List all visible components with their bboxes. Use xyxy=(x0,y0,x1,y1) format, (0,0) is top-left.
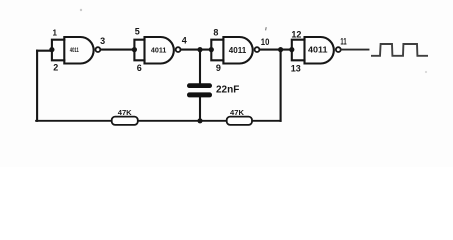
svg-text:3: 3 xyxy=(100,36,105,46)
node bottom rail junction xyxy=(197,118,202,123)
svg-text:4011: 4011 xyxy=(70,47,79,54)
bubble gate2 output xyxy=(176,47,181,52)
svg-text:1: 1 xyxy=(52,29,57,38)
speck artifact right xyxy=(425,71,427,73)
NAND gate U1c 4011 xyxy=(223,37,252,64)
svg-text:8: 8 xyxy=(213,28,218,38)
wire right feedback vertical xyxy=(280,50,282,121)
resistor R1 47K xyxy=(112,117,138,125)
wire bottom rail left segment xyxy=(36,120,112,122)
svg-text:2: 2 xyxy=(53,63,58,73)
wire feedback left horizontal xyxy=(37,50,52,52)
NAND gate U1a 4011 xyxy=(64,37,93,64)
wire gate3 input tie xyxy=(211,40,223,61)
speck artifact top xyxy=(80,9,82,11)
svg-text:6: 6 xyxy=(137,63,142,73)
bubble gate1 output xyxy=(96,47,101,52)
wire feedback left vertical xyxy=(36,51,38,121)
speck artifact near gate4 xyxy=(265,27,268,30)
NAND gate U1d 4011 xyxy=(305,37,334,64)
svg-text:9: 9 xyxy=(216,63,221,73)
wire output pin 11 xyxy=(341,49,368,51)
wire gate2 out to gate3 in xyxy=(181,49,212,51)
svg-text:11: 11 xyxy=(340,37,346,47)
wire gate3 out to gate4 in xyxy=(260,49,292,51)
svg-text:47K: 47K xyxy=(118,108,132,117)
svg-text:13: 13 xyxy=(291,64,301,74)
node gate1 input junction xyxy=(49,47,54,52)
svg-text:22nF: 22nF xyxy=(216,85,239,96)
svg-text:5: 5 xyxy=(135,27,140,37)
node right feedback junction xyxy=(278,47,283,52)
svg-text:12: 12 xyxy=(291,29,301,39)
node capacitor top junction xyxy=(197,47,202,52)
svg-text:4011: 4011 xyxy=(308,45,328,55)
node gate2 input junction xyxy=(132,47,137,52)
capacitor C1 top plate xyxy=(187,83,212,88)
bubble gate3 output xyxy=(255,47,260,52)
waveform output square wave xyxy=(371,44,428,56)
svg-text:4: 4 xyxy=(182,35,187,45)
svg-text:4011: 4011 xyxy=(151,46,167,55)
bubble gate4 output xyxy=(336,47,341,52)
wire gate4 input tie xyxy=(292,40,305,61)
node gate4 input junction xyxy=(289,47,294,52)
svg-text:10: 10 xyxy=(261,37,270,47)
wire gate1 out to gate2 in xyxy=(101,49,135,51)
wire gate1 input tie xyxy=(52,40,64,61)
wire gate2 input tie xyxy=(134,40,144,61)
NAND gate U1b 4011 xyxy=(145,37,174,64)
capacitor C1 bottom plate xyxy=(187,92,212,97)
wire capacitor upper lead xyxy=(199,50,201,84)
wire bottom rail middle segment xyxy=(138,120,227,122)
wire capacitor lower lead xyxy=(199,97,201,121)
svg-text:4011: 4011 xyxy=(229,46,247,55)
node gate3 input junction xyxy=(209,47,214,52)
resistor R2 47K xyxy=(227,117,252,125)
svg-text:47K: 47K xyxy=(230,108,244,117)
wire bottom rail right segment xyxy=(252,120,281,122)
